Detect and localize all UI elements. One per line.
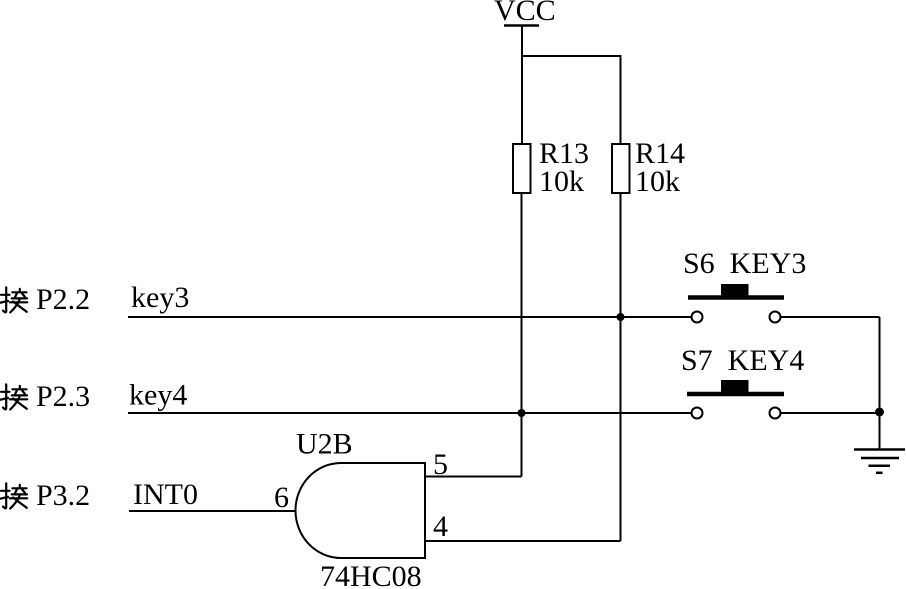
svg-text:key4: key4 xyxy=(129,379,187,412)
svg-text:S7 KEY4: S7 KEY4 xyxy=(681,344,804,377)
svg-text:4: 4 xyxy=(433,510,448,543)
svg-text:6: 6 xyxy=(274,481,289,514)
svg-text:74HC08: 74HC08 xyxy=(320,560,422,589)
svg-text:S6 KEY3: S6 KEY3 xyxy=(683,247,806,280)
svg-text:INT0: INT0 xyxy=(133,478,198,511)
svg-text:key3: key3 xyxy=(131,281,189,314)
svg-text:5: 5 xyxy=(433,448,448,481)
svg-text:P2.2: P2.2 xyxy=(36,283,90,316)
svg-text:VCC: VCC xyxy=(494,0,556,27)
svg-text:P2.3: P2.3 xyxy=(36,380,90,413)
svg-text:U2B: U2B xyxy=(296,428,353,461)
svg-text:10k: 10k xyxy=(539,165,584,198)
svg-text:P3.2: P3.2 xyxy=(36,479,90,512)
svg-text:10k: 10k xyxy=(635,165,680,198)
